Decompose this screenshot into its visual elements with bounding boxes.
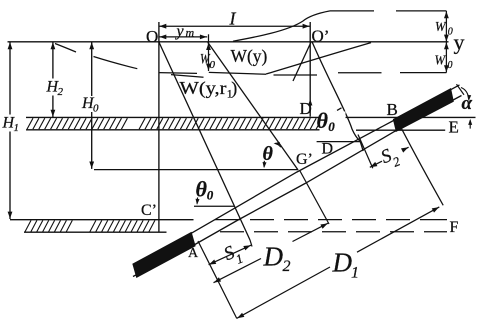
arrow on O' vertical above D [308, 99, 312, 106]
svg-text:0: 0 [93, 103, 99, 115]
extension line from G' [300, 171, 329, 224]
label H0 [81, 96, 103, 112]
hatching of upper band [27, 118, 322, 129]
dimension line D2 right piece [293, 223, 329, 241]
dashed level line C'-F lower [220, 231, 447, 233]
hatching of lower band [25, 220, 155, 231]
displacement angle line from O' (theta0 upper) [312, 42, 363, 151]
W0 scale dimension line at right [445, 11, 447, 73]
svg-text:0: 0 [448, 27, 453, 38]
depth line H1 [9, 42, 11, 219]
lower rock level band bottom line [24, 231, 167, 233]
dashed level -W0 segment c [400, 72, 446, 74]
alpha dip angle arc arrow [461, 88, 469, 100]
svg-text:D: D [322, 141, 334, 158]
svg-text:α: α [462, 93, 473, 114]
theta angle tick arrow [263, 161, 265, 167]
svg-text:D: D [263, 242, 284, 272]
svg-text:C’: C’ [141, 202, 157, 219]
trough bottom line W(y) left part [159, 72, 197, 75]
arrowhead I left [159, 24, 166, 29]
horizontal reference line D (upper) [317, 141, 361, 143]
horizontal reference line at average depth (theta vertex at G') [94, 169, 298, 171]
upper rock level band bottom line (right of theta0 vertex, to E) [356, 129, 445, 131]
svg-text:E: E [449, 118, 459, 137]
depth line H2 [52, 42, 54, 117]
coal pillar bar at A (lower) [133, 232, 195, 277]
seam roof line (inclined) [133, 85, 460, 265]
svg-text:m: m [186, 26, 195, 40]
depth line H0 [91, 42, 93, 169]
dimension line D2 left piece [214, 259, 262, 283]
lower rock level band top line [10, 219, 194, 221]
svg-text:θ: θ [196, 177, 208, 202]
dimension line I [159, 25, 310, 27]
svg-text:0: 0 [210, 59, 216, 71]
dashed level +W0 segment a [330, 10, 374, 12]
svg-text:D: D [300, 99, 312, 118]
curve segment W(y,r1) left limb b [94, 57, 138, 69]
theta angle arc arrowhead near theta line [275, 143, 281, 147]
svg-text:W(y,r: W(y,r [180, 78, 227, 99]
W0 extension tick at ym [208, 34, 210, 71]
theta0 upper angle arc arrow [337, 108, 342, 111]
upper rock level band bottom line (left of theta0 vertex) [26, 129, 320, 131]
dimension line ym [159, 36, 207, 38]
dashed level +W0 segment b [396, 10, 446, 12]
extension line from B (curved) [402, 129, 444, 206]
svg-text:1: 1 [351, 265, 359, 282]
curve W(y) rising to O' (right limb) [266, 43, 371, 74]
svg-text:1: 1 [14, 122, 20, 134]
dashed level line C'-F upper [215, 219, 447, 221]
extension line from A (perpendicular to seam) [198, 241, 237, 319]
arrowhead W0 up [206, 43, 211, 50]
svg-text:W: W [435, 20, 447, 35]
tick extension at end of line from O [250, 240, 252, 247]
label theta0 upper (on hatched band, white backed) [320, 112, 346, 134]
dimension line D1 left piece [237, 267, 330, 318]
svg-text:D: D [332, 248, 353, 278]
svg-text:F: F [450, 219, 459, 236]
svg-text:O: O [146, 27, 158, 46]
displacement angle line from O (theta0 lower) [159, 42, 250, 240]
dashed level -W0 segment a [274, 74, 318, 76]
svg-text:θ: θ [317, 108, 329, 133]
svg-text:2: 2 [58, 86, 64, 98]
svg-text:0: 0 [207, 188, 214, 203]
upper rock level band top line [26, 116, 476, 118]
arrow marking E level line [469, 120, 471, 128]
short line from O' down-left [293, 42, 311, 81]
label H2 [45, 79, 65, 96]
curve segment W(y,r1) left limb a [55, 44, 76, 53]
extension line for S2 left end [358, 135, 373, 169]
arrowhead ym right [200, 35, 207, 40]
vertical line below O' (to D) [309, 22, 311, 117]
svg-text:A: A [188, 246, 199, 261]
svg-text:W: W [435, 54, 447, 69]
svg-text:I: I [229, 9, 237, 29]
svg-text:): ) [231, 78, 237, 99]
seam end cap line upper right [457, 84, 465, 95]
arrowhead ym left [159, 35, 166, 40]
horizontal reference line theta0 lower vertex [194, 205, 235, 207]
svg-text:2: 2 [283, 258, 291, 275]
svg-text:y: y [175, 23, 185, 40]
svg-text:y: y [454, 30, 465, 55]
dimension line S2 right piece [404, 147, 409, 150]
coal pillar bar at B (upper) [393, 89, 453, 132]
seam floor line (inclined) [133, 96, 462, 277]
svg-text:0: 0 [448, 60, 453, 71]
trough bottom line W(y,r1) [171, 75, 204, 78]
svg-text:O’: O’ [312, 27, 330, 46]
label H1 [2, 115, 20, 132]
dashed level -W0 segment b [338, 72, 382, 74]
svg-text:G’: G’ [296, 151, 313, 168]
surface line O-O' [8, 41, 449, 43]
dimension line S1 [209, 245, 251, 265]
svg-text:θ: θ [263, 143, 274, 165]
svg-text:0: 0 [328, 119, 335, 134]
arrowhead I right [303, 24, 310, 29]
theta0 lower angle arc arrow [196, 198, 199, 204]
curve rising above surface to +W0 level [233, 11, 330, 41]
dimension line D1 right piece [357, 207, 439, 252]
svg-text:B: B [387, 100, 398, 119]
arrowhead W0 down [206, 64, 211, 71]
trough bottom line W(y) right part [209, 72, 266, 74]
svg-text:W(y): W(y) [231, 46, 268, 67]
vertical line below O (to C') [158, 22, 160, 233]
max subsidence angle line theta to G' [208, 42, 298, 169]
dimension line S2 left piece [370, 161, 382, 167]
